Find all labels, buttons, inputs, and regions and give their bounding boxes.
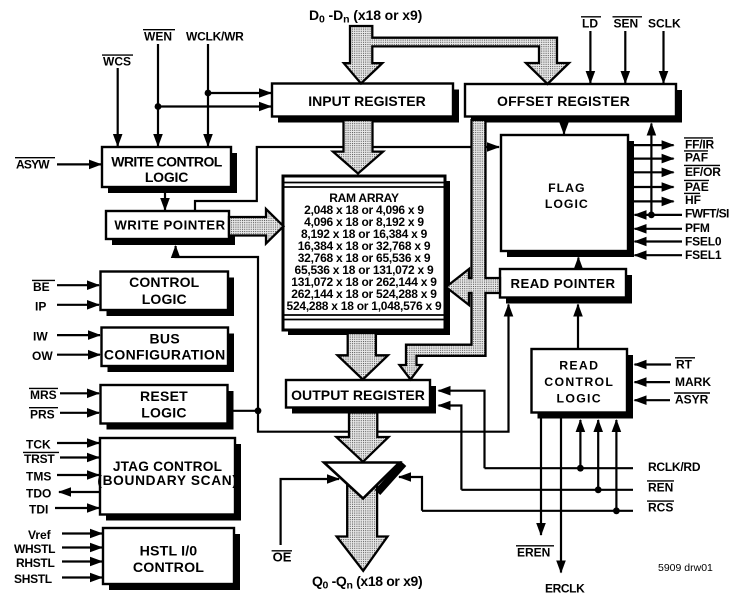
svg-text:EREN: EREN <box>517 545 550 559</box>
svg-text:BUS: BUS <box>149 331 180 347</box>
svg-text:OW: OW <box>32 349 53 363</box>
svg-text:ASYW: ASYW <box>16 157 50 171</box>
wire TCK to JTAG CONTROL <box>57 442 99 444</box>
svg-text:SEN: SEN <box>614 16 639 30</box>
svg-text:(BOUNDARY SCAN): (BOUNDARY SCAN) <box>97 473 237 488</box>
svg-text:FLAG: FLAG <box>548 181 585 195</box>
svg-text:ERCLK: ERCLK <box>545 582 585 596</box>
svg-text:Vref: Vref <box>28 528 52 542</box>
svg-text:LOGIC: LOGIC <box>557 391 602 405</box>
label PRS <box>29 407 58 421</box>
svg-text:PRS: PRS <box>30 407 55 421</box>
svg-text:524,288 x 18 or 1,048,576 x 9: 524,288 x 18 or 1,048,576 x 9 <box>287 299 442 313</box>
wire READ CONTROL LOGIC to READ POINTER <box>577 305 579 350</box>
label WEN <box>143 29 175 43</box>
svg-text:TRST: TRST <box>24 452 55 466</box>
wire PRS to RESET LOGIC <box>60 412 99 414</box>
wire IW to BUS CONFIGURATION <box>57 334 100 336</box>
wire TMS to JTAG CONTROL <box>57 474 99 476</box>
junction on WCLK/WR line <box>205 90 212 97</box>
wire WRITE POINTER to FLAG LOGIC <box>195 147 499 211</box>
bus arrow READ POINTER to RAM ARRAY <box>446 269 500 305</box>
bus arrow output buffer to Qn <box>337 468 388 571</box>
wire OW to BUS CONFIGURATION <box>57 354 100 356</box>
block READ CONTROL LOGIC <box>532 349 634 419</box>
svg-text:PAF: PAF <box>685 151 708 165</box>
wire RESET to WRITE POINTER <box>176 246 258 411</box>
wire RCS <box>422 510 633 512</box>
wire RCS to output buffer <box>399 477 422 511</box>
label Vref <box>28 528 52 542</box>
wire WEN to INPUT REGISTER <box>158 105 271 107</box>
wire SCLK to OFFSET REGISTER <box>662 31 664 83</box>
wire RCLK/RD <box>485 467 634 469</box>
label EF/OR <box>684 165 721 179</box>
label RCLK/RD <box>648 460 701 474</box>
block JTAG CONTROL (BOUNDARY SCAN) <box>97 438 241 521</box>
svg-text:IP: IP <box>35 300 46 314</box>
svg-text:SHSTL: SHSTL <box>14 572 52 586</box>
wire RCLK/RD to READ CONTROL LOGIC <box>579 420 581 468</box>
block RESET LOGIC <box>101 385 234 430</box>
svg-text:INPUT REGISTER: INPUT REGISTER <box>308 93 425 109</box>
svg-text:5909 drw01: 5909 drw01 <box>658 562 713 574</box>
svg-text:SCLK: SCLK <box>648 16 681 30</box>
hatch joint of READ POINTER bus and vertical bus <box>470 279 487 292</box>
label FSEL0 <box>685 235 722 249</box>
label RHSTL <box>16 556 55 570</box>
svg-text:TCK: TCK <box>26 438 51 452</box>
svg-text:FSEL0: FSEL0 <box>685 235 722 249</box>
label ASYW <box>15 157 55 171</box>
wire FLAG LOGIC output EF/OR <box>628 171 674 173</box>
svg-text:RCLK/RD: RCLK/RD <box>648 460 701 474</box>
bus arrow Dn input to INPUT REGISTER and OFFSET REGISTER <box>344 26 569 84</box>
wire TDI to JTAG CONTROL <box>55 507 99 509</box>
wire OE to output buffer <box>281 479 339 545</box>
wire RCS to READ CONTROL LOGIC <box>615 420 617 511</box>
junction on WEN line <box>155 103 162 110</box>
bus arrow RAM ARRAY to OUTPUT REGISTER <box>338 333 389 380</box>
wire FWFT/SI to OFFSET REGISTER <box>650 124 652 215</box>
svg-text:TDO: TDO <box>26 487 51 501</box>
label RT <box>675 357 695 371</box>
wire WRITE CONTROL LOGIC to WRITE POINTER <box>164 193 166 210</box>
svg-text:HSTL I/0: HSTL I/0 <box>140 543 198 559</box>
svg-text:D0 -Dn (x18 or x9): D0 -Dn (x18 or x9) <box>309 7 422 26</box>
svg-text:TDI: TDI <box>29 503 48 517</box>
wire FLAG LOGIC input FSEL1 <box>635 254 683 256</box>
svg-text:RCS: RCS <box>648 501 673 515</box>
bus arrow WRITE POINTER to RAM ARRAY <box>229 209 284 244</box>
wire REN to OUTPUT REGISTER <box>439 406 462 490</box>
label HF <box>684 193 701 207</box>
label FSEL1 <box>685 248 722 262</box>
svg-text:WHSTL: WHSTL <box>14 542 55 556</box>
wire SHSTL to HSTL I/0 CONTROL <box>62 576 102 578</box>
block RAM ARRAY <box>283 176 450 335</box>
junction RESET LOGIC node <box>255 407 262 414</box>
label FF/IR <box>684 138 715 152</box>
svg-text:HF: HF <box>685 193 701 207</box>
label TCK <box>26 438 51 452</box>
wire WCLK/WR vertical <box>207 44 209 146</box>
label IP <box>35 300 46 314</box>
svg-text:JTAG CONTROL: JTAG CONTROL <box>113 459 222 474</box>
label ASYR <box>674 393 710 407</box>
block WRITE POINTER <box>106 211 235 245</box>
wire READ CONTROL LOGIC to ERCLK <box>560 413 562 573</box>
block READ POINTER <box>500 269 632 304</box>
svg-text:REN: REN <box>648 481 673 495</box>
block BUS CONFIGURATION <box>102 328 235 373</box>
wire READ CONTROL LOGIC to EREN <box>540 413 542 535</box>
wire FLAG LOGIC output PAF <box>628 158 674 160</box>
svg-text:PFM: PFM <box>685 221 710 235</box>
svg-text:PAE: PAE <box>685 180 709 194</box>
svg-text:RHSTL: RHSTL <box>16 556 55 570</box>
label TMS <box>26 470 51 484</box>
block WRITE CONTROL LOGIC <box>102 147 237 193</box>
svg-text:MRS: MRS <box>30 388 57 402</box>
svg-text:CONTROL: CONTROL <box>544 375 614 389</box>
wire LD to OFFSET REGISTER <box>589 31 591 83</box>
svg-text:WRITE CONTROL: WRITE CONTROL <box>111 154 222 170</box>
bus arrow OFFSET REGISTER to OUTPUT REGISTER <box>400 120 486 380</box>
wire RCLK/RD to OUTPUT REGISTER <box>439 391 485 469</box>
wire WHSTL to HSTL I/0 CONTROL <box>62 546 102 548</box>
block FLAG LOGIC <box>501 135 634 257</box>
wire ASYW to WRITE CONTROL LOGIC <box>57 163 101 165</box>
wire REN to READ CONTROL LOGIC <box>597 420 599 490</box>
wire RT to READ CONTROL LOGIC <box>635 363 672 365</box>
bus arrow INPUT REGISTER to RAM ARRAY <box>333 120 383 174</box>
svg-text:WEN: WEN <box>144 29 172 43</box>
wire Vref to HSTL I/0 CONTROL <box>62 532 102 534</box>
label SHSTL <box>14 572 52 586</box>
label RCS <box>647 501 674 515</box>
wire SEN to OFFSET REGISTER <box>624 31 626 83</box>
label WCLK/WR <box>186 29 244 43</box>
label ERCLK <box>545 582 585 596</box>
svg-text:LD: LD <box>582 16 598 30</box>
wire IP to CONTROL LOGIC <box>57 304 99 306</box>
svg-text:CONTROL: CONTROL <box>133 560 204 576</box>
block OUTPUT REGISTER <box>286 380 436 414</box>
junction RCS node <box>613 507 620 514</box>
svg-text:FF/IR: FF/IR <box>685 138 715 152</box>
label WHSTL <box>14 542 55 556</box>
svg-text:WCS: WCS <box>103 55 131 69</box>
svg-text:LOGIC: LOGIC <box>141 405 187 421</box>
wire RHSTL to HSTL I/0 CONTROL <box>62 560 102 562</box>
label OW <box>32 349 53 363</box>
wire FLAG LOGIC output HF <box>628 200 674 202</box>
wire MRS to RESET LOGIC <box>60 392 99 394</box>
svg-text:FSEL1: FSEL1 <box>685 248 722 262</box>
svg-text:BE: BE <box>33 280 50 294</box>
label LD <box>581 16 601 30</box>
label PAF <box>684 151 708 165</box>
wire WCS to WRITE CONTROL LOGIC <box>117 68 119 146</box>
label TDI <box>29 503 48 517</box>
wire RESET LOGIC output <box>228 410 259 412</box>
label OE <box>272 549 292 564</box>
wire REN <box>461 489 633 491</box>
wire FLAG LOGIC input PFM <box>635 228 683 230</box>
wire RESET to READ POINTER <box>258 305 509 432</box>
wire FLAG LOGIC input FSEL0 <box>635 240 683 242</box>
wire ASYR to READ CONTROL LOGIC <box>635 399 671 401</box>
wire OFFSET REGISTER to FLAG LOGIC <box>563 122 565 134</box>
svg-text:LOGIC: LOGIC <box>545 197 589 211</box>
output buffer tri-state triangle <box>324 463 404 499</box>
svg-text:LOGIC: LOGIC <box>142 291 187 307</box>
svg-text:TMS: TMS <box>26 470 51 484</box>
svg-text:Q0 -Qn (x18 or x9): Q0 -Qn (x18 or x9) <box>312 573 422 592</box>
wire FLAG LOGIC output FF/IR <box>628 144 674 146</box>
wire BE to CONTROL LOGIC <box>57 284 99 286</box>
label BE <box>32 280 55 294</box>
svg-text:WRITE POINTER: WRITE POINTER <box>114 218 225 233</box>
svg-text:EF/OR: EF/OR <box>685 165 721 179</box>
svg-text:OFFSET REGISTER: OFFSET REGISTER <box>497 93 630 109</box>
label WCS <box>102 55 133 69</box>
label EREN <box>516 545 554 559</box>
block CONTROL LOGIC <box>101 272 235 317</box>
svg-text:CONFIGURATION: CONFIGURATION <box>104 347 226 363</box>
label SEN <box>613 16 643 30</box>
label FWFT/SI <box>685 207 729 221</box>
wire READ POINTER to FLAG LOGIC <box>577 258 579 270</box>
wire TRST to JTAG CONTROL <box>60 456 99 458</box>
label 5909 drw01 <box>658 562 713 574</box>
wire WCLK/WR to INPUT REGISTER <box>208 92 271 94</box>
junction FWFT/SI node <box>648 212 655 219</box>
junction RCLK/RD node <box>577 465 584 472</box>
svg-text:READ POINTER: READ POINTER <box>510 276 615 291</box>
wire TDO from JTAG CONTROL <box>59 491 100 493</box>
block INPUT REGISTER <box>272 84 459 123</box>
wire WEN vertical <box>157 44 159 146</box>
svg-text:CONTROL: CONTROL <box>129 274 200 290</box>
svg-text:READ: READ <box>559 359 599 373</box>
svg-text:ASYR: ASYR <box>675 393 709 407</box>
svg-text:OE: OE <box>273 549 292 564</box>
label TDO <box>26 487 51 501</box>
junction REN node <box>595 486 602 493</box>
bus arrow OUTPUT REGISTER to output buffer <box>336 413 388 462</box>
label REN <box>647 481 674 495</box>
label PAE <box>684 180 709 194</box>
label MRS <box>29 388 58 402</box>
wire MARK to READ CONTROL LOGIC <box>635 381 671 383</box>
svg-text:LOGIC: LOGIC <box>145 169 188 185</box>
svg-text:MARK: MARK <box>675 375 711 389</box>
svg-text:IW: IW <box>33 330 48 344</box>
wire FLAG LOGIC input FWFT/SI <box>635 214 683 216</box>
label PFM <box>685 221 710 235</box>
label TRST <box>23 452 59 466</box>
block OFFSET REGISTER <box>465 84 682 123</box>
svg-text:RESET: RESET <box>140 388 188 404</box>
svg-text:FWFT/SI: FWFT/SI <box>685 207 729 221</box>
wire FLAG LOGIC output PAE <box>628 186 674 188</box>
svg-text:RT: RT <box>676 357 693 371</box>
svg-text:WCLK/WR: WCLK/WR <box>186 29 244 43</box>
label IW <box>33 330 48 344</box>
label SCLK <box>648 16 681 30</box>
block HSTL I/0 CONTROL <box>103 528 240 590</box>
svg-text:OUTPUT REGISTER: OUTPUT REGISTER <box>291 387 425 403</box>
label MARK <box>675 375 711 389</box>
